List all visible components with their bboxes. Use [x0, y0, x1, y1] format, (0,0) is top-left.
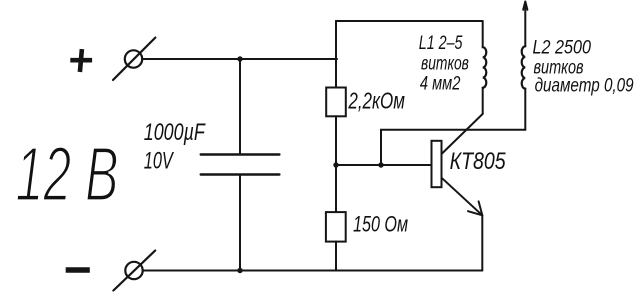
svg-text:12 В: 12 В: [16, 132, 119, 218]
transistor Q1 KT805: [432, 114, 483, 215]
wire: L2 return (up and right): [381, 130, 525, 165]
wire: L1 bottom lead to collector: [482, 88, 484, 114]
wire: left rail mid vertical: [335, 116, 337, 212]
wire: L2 bottom lead: [524, 89, 526, 130]
junction dot: L2 tap on base wire: [378, 162, 383, 167]
junction dot: capacitor bottom node: [237, 268, 242, 273]
wire: top rail horizontal: [336, 20, 483, 22]
svg-text:10V: 10V: [144, 148, 174, 175]
svg-text:150 Ом: 150 Ом: [353, 211, 408, 236]
inductor L1 (bumps right): [483, 47, 487, 87]
wire: antenna lead: [524, 3, 526, 47]
wire: capacitor bottom lead: [239, 176, 241, 271]
terminal - (circle with slash): [113, 251, 155, 291]
junction dot: base node: [333, 162, 338, 167]
svg-text:КТ805: КТ805: [450, 148, 506, 175]
svg-text:4 мм2: 4 мм2: [420, 73, 461, 95]
wire: left rail upper vertical: [335, 21, 337, 88]
wire: base wire: [336, 164, 432, 166]
svg-text:диаметр 0,09: диаметр 0,09: [535, 74, 634, 96]
resistor R1 2,2kOm body: [326, 88, 346, 117]
wire: capacitor top lead: [239, 59, 241, 153]
wire: + terminal to left rail: [142, 58, 337, 60]
capacitor C1 plates: [201, 155, 280, 175]
terminal + (circle with slash): [113, 38, 155, 80]
junction dot: capacitor top node: [237, 56, 242, 61]
svg-text:1000µF: 1000µF: [144, 119, 206, 146]
plus sign: [70, 49, 92, 72]
minus sign: [66, 267, 90, 273]
svg-text:L2 2500: L2 2500: [533, 36, 592, 58]
svg-text:2,2кОм: 2,2кОм: [348, 88, 405, 114]
svg-text:витков: витков: [421, 52, 469, 74]
wire: emitter to bottom rail: [481, 215, 483, 270]
inductor L2 (bumps left): [522, 46, 526, 88]
wire: bottom rail: [143, 270, 483, 272]
wire: L1 top lead: [482, 21, 484, 47]
svg-text:L1 2–5: L1 2–5: [419, 32, 463, 54]
antenna arrow head: [523, 2, 527, 10]
resistor R2 150 Om body: [326, 212, 346, 242]
wire: left rail lower vertical: [335, 242, 337, 271]
